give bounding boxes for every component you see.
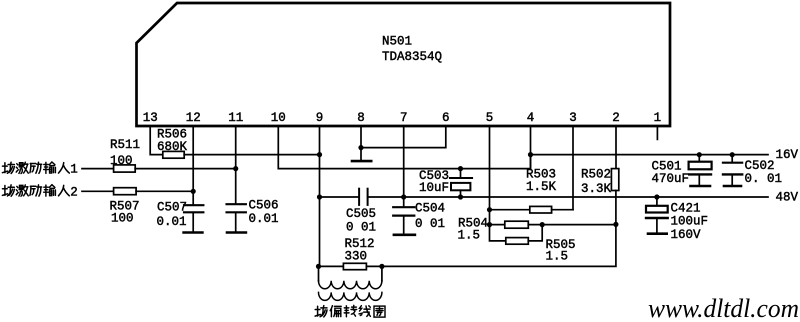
node junction input2 / pin 12 [191, 189, 196, 194]
node junction pin 5 / R504 line [487, 222, 492, 227]
svg-text:N501: N501 [382, 35, 412, 49]
resistor R511 100 [110, 138, 140, 172]
wire net F from R504 to feedback riser [528, 224, 616, 226]
wire R505 branch up to R504 right node [528, 225, 542, 241]
wire net E from pin 5 to R503 [490, 209, 530, 211]
node junction pin8 / pins 6-7 ground line [358, 145, 363, 150]
wire net F from pin 5 to R504 [490, 224, 505, 226]
wire pin 11 column down to C506 [235, 126, 237, 204]
label 场激励输入1 (field drive input 1) [2, 162, 77, 177]
resistor R503 1.5K [526, 168, 557, 214]
svg-text:680K: 680K [157, 140, 188, 154]
ground bar under C507 [184, 231, 203, 234]
node junction net D / C503 bottom [458, 194, 463, 199]
resistor R504 1.5 [458, 217, 529, 243]
svg-text:C507: C507 [157, 201, 187, 215]
node junction net C / C503 top [458, 166, 463, 171]
watermark www.dltdl.com [648, 294, 799, 322]
svg-text:0.01: 0.01 [249, 212, 279, 226]
svg-text:C506: C506 [249, 199, 279, 213]
resistor R507 100 [110, 188, 140, 226]
svg-text:4: 4 [527, 111, 535, 125]
wire net E from R503 up pin 3 column [552, 209, 573, 211]
wire pin 9 column down to deflection-coil node [319, 126, 321, 266]
wire pin 3 column down to R503 [572, 126, 574, 210]
wire 16V rail from pin 4 junction to label [531, 154, 769, 156]
capacitor C507 0.01 [157, 201, 204, 232]
wire pin 6 stub down then left to pin8 ground line [361, 126, 446, 148]
svg-text:8: 8 [357, 111, 365, 125]
svg-text:5: 5 [486, 111, 494, 125]
wire net D from C505 to 48V label [368, 196, 768, 198]
wire pin 12 column down to C507 [192, 126, 194, 205]
node junction net D / pin 7 [401, 194, 406, 199]
node junction input1 / pin 11 [233, 166, 238, 171]
svg-text:48V: 48V [776, 190, 799, 204]
svg-text:10: 10 [271, 111, 286, 125]
svg-text:100: 100 [111, 212, 134, 226]
ground bar under C501 [691, 185, 711, 188]
svg-text:100uF: 100uF [671, 215, 709, 229]
label 48V [776, 190, 799, 204]
ground bar under C502 [724, 185, 741, 188]
capacitor C421 100uF 160V (electrolytic) [646, 197, 708, 242]
node junction pin 9 column / coil left [316, 264, 321, 269]
ground bar under pin 8 [352, 160, 371, 163]
IC pin numbers 13..1 [143, 111, 661, 125]
svg-text:0.01: 0.01 [157, 215, 187, 229]
wire pin 2 column down to R502 [615, 126, 617, 169]
wire pin 5 column down to R504 node [489, 126, 491, 225]
svg-text:C504: C504 [415, 202, 445, 216]
node junction net F / feedback riser [613, 222, 618, 227]
svg-text:9: 9 [316, 111, 324, 125]
wire pin 2 extension from R502 down to feedback node [615, 191, 617, 225]
capacitor C503 10uF (electrolytic) [419, 169, 472, 197]
wire pin 8 stub down to ground [360, 126, 362, 160]
resistor R506 680K [157, 128, 188, 159]
node junction 16V / C501 [697, 152, 702, 157]
svg-text:160V: 160V [671, 228, 702, 242]
svg-text:TDA8354Q: TDA8354Q [382, 50, 442, 64]
node junction 16V / C502 [730, 152, 735, 157]
capacitor C502 0.01 [723, 155, 782, 186]
svg-text:16V: 16V [776, 148, 799, 162]
wire R505 branch down from pin 5 node [490, 225, 506, 241]
wire net G from R512 to coil right node [366, 265, 382, 267]
wire pin 13 stub down then right to R506 [150, 126, 163, 155]
node junction pin 4 / 16V rail / riser [528, 152, 533, 157]
svg-text:1.5K: 1.5K [526, 180, 557, 194]
label 16V [776, 148, 799, 162]
svg-text:100: 100 [110, 154, 133, 168]
wire input 2 line to R507 [82, 190, 114, 192]
label 场偏转线圈 (field deflection coil) [315, 305, 385, 317]
node junction R504/R505 right [540, 222, 545, 227]
wire net D from pin 9 to C505 left plate [320, 196, 360, 198]
svg-text:470uF: 470uF [652, 172, 690, 186]
capacitor C506 0.01 [227, 199, 279, 232]
svg-text:1.5: 1.5 [546, 250, 569, 264]
IC N501 TDA8354Q body [137, 3, 671, 126]
wire net C from pin 10 to C503 top and riser up to pin 4 node [320, 155, 531, 169]
svg-text:330: 330 [345, 250, 368, 264]
wire pin 10 stub down then right (to net C) [278, 126, 319, 169]
svg-text:13: 13 [143, 111, 158, 125]
svg-text:R502: R502 [581, 168, 611, 182]
svg-text:0 01: 0 01 [346, 221, 376, 235]
ground bar under C506 [227, 231, 246, 234]
wire input 1 line to R511 [82, 168, 114, 170]
field deflection coil (场偏转线圈) L [319, 266, 382, 300]
svg-text:3.3K: 3.3K [581, 182, 612, 196]
capacitor C504 0 01 [393, 202, 445, 234]
svg-text:C502: C502 [745, 159, 775, 173]
svg-text:6: 6 [442, 111, 450, 125]
wire pin 7 column down to C504 [403, 126, 405, 207]
wire feedback line from coil right to riser up to R502 node [382, 224, 616, 266]
wire net A from R506 to pin 9 column [184, 154, 319, 156]
node junction pin 5 / R503 line [487, 207, 492, 212]
svg-text:2: 2 [612, 111, 620, 125]
wire pin 4 column down joining net C [530, 126, 532, 169]
node junction net A / pin 9 [317, 152, 322, 157]
ground bar under C504 [394, 234, 415, 237]
svg-text:0. 01: 0. 01 [745, 172, 783, 186]
capacitor C505 0 01 (series) [346, 189, 376, 235]
node junction coil right / feedback line [379, 264, 384, 269]
svg-text:1: 1 [70, 163, 78, 177]
resistor R505 1.5 [506, 238, 576, 264]
label 场激励输入2 (field drive input 2) [2, 185, 77, 200]
svg-text:10uF: 10uF [419, 181, 449, 195]
resistor R502 3.3K (vertical) [581, 168, 619, 197]
svg-text:C505: C505 [346, 207, 376, 221]
capacitor C501 470uF (electrolytic) [652, 155, 712, 186]
svg-text:1: 1 [654, 111, 662, 125]
svg-text:www.dltdl.com: www.dltdl.com [648, 294, 799, 322]
ground bar under C421 [648, 232, 667, 235]
svg-text:2: 2 [70, 185, 78, 199]
wire pin 1 stub (n.c.) [656, 126, 658, 139]
wire net G from coil-left node to R512 [319, 265, 344, 267]
wire input 1 line from R511 to pin 11 column [135, 168, 236, 170]
svg-text:11: 11 [228, 111, 243, 125]
wire input 2 line from R507 to pin 12 column [136, 190, 193, 192]
svg-text:7: 7 [400, 111, 408, 125]
svg-text:1.5: 1.5 [458, 229, 481, 243]
svg-text:R511: R511 [110, 138, 140, 152]
node junction 48V / C421 [654, 194, 659, 199]
resistor R512 330 [343, 237, 374, 270]
svg-text:0 01: 0 01 [415, 217, 445, 231]
svg-text:12: 12 [186, 111, 201, 125]
node junction net D / pin 9 [317, 194, 322, 199]
svg-text:C421: C421 [671, 202, 701, 216]
svg-text:3: 3 [569, 111, 577, 125]
